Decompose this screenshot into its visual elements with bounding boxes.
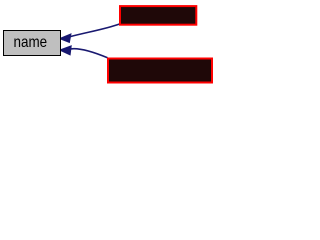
node: name (gray current node) — [4, 31, 61, 56]
arrowhead into node name (upper) — [60, 34, 70, 42]
node: top red box (dark fill, red border) — [120, 6, 196, 25]
wire: spline edge from bottom red box to node name — [71, 49, 108, 58]
node: bottom red box (dark fill, red border) — [108, 59, 212, 83]
svg-text:name: name — [14, 34, 48, 51]
arrowhead into node name (lower) — [60, 46, 71, 54]
wire: spline edge from top red box to node name — [70, 24, 119, 37]
